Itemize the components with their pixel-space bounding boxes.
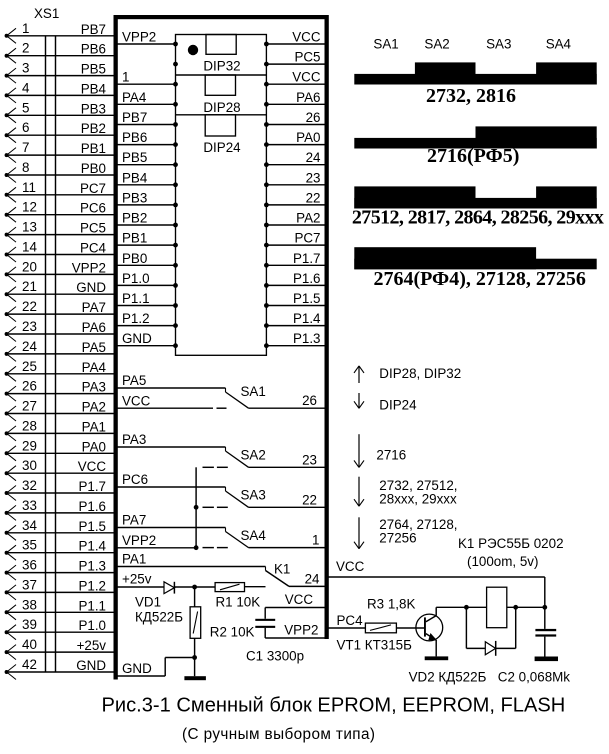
svg-text:2716(РФ5): 2716(РФ5) xyxy=(427,145,519,167)
svg-text:PA2: PA2 xyxy=(82,400,106,415)
svg-text:29: 29 xyxy=(22,438,37,453)
svg-text:PC7: PC7 xyxy=(80,181,106,196)
svg-text:11: 11 xyxy=(22,180,36,195)
svg-text:SA4: SA4 xyxy=(546,36,572,51)
svg-text:34: 34 xyxy=(22,518,37,533)
svg-text:PA5: PA5 xyxy=(122,373,146,388)
svg-text:P1.2: P1.2 xyxy=(78,578,106,593)
svg-text:38: 38 xyxy=(22,597,37,612)
svg-text:GND: GND xyxy=(122,331,152,346)
svg-text:PB2: PB2 xyxy=(81,121,106,136)
svg-text:37: 37 xyxy=(22,577,37,592)
svg-text:PC6: PC6 xyxy=(80,201,106,216)
svg-text:VD2 КД522Б: VD2 КД522Б xyxy=(409,670,487,685)
svg-text:PB5: PB5 xyxy=(122,150,147,165)
svg-text:VPP2: VPP2 xyxy=(72,260,106,275)
svg-text:PA7: PA7 xyxy=(122,513,146,528)
svg-text:P1.3: P1.3 xyxy=(78,559,106,574)
svg-text:PA7: PA7 xyxy=(82,300,106,315)
svg-text:PB6: PB6 xyxy=(81,42,106,57)
svg-text:24: 24 xyxy=(305,572,320,587)
svg-text:VCC: VCC xyxy=(336,559,365,574)
svg-text:(100om, 5v): (100om, 5v) xyxy=(467,554,538,569)
svg-text:PB0: PB0 xyxy=(81,161,106,176)
svg-text:P1.4: P1.4 xyxy=(78,539,106,554)
svg-text:K1 РЭС55Б 0202: K1 РЭС55Б 0202 xyxy=(458,536,564,551)
svg-text:VCC: VCC xyxy=(78,459,107,474)
svg-text:PA3: PA3 xyxy=(122,432,146,447)
svg-text:26: 26 xyxy=(306,110,321,125)
svg-text:K1: K1 xyxy=(274,562,290,577)
svg-text:VCC: VCC xyxy=(292,30,321,45)
svg-text:+25v: +25v xyxy=(77,638,107,653)
svg-text:2764(РФ4), 27128, 27256: 2764(РФ4), 27128, 27256 xyxy=(374,268,586,290)
svg-text:VPP2: VPP2 xyxy=(284,623,318,638)
svg-text:40: 40 xyxy=(22,637,37,652)
svg-text:5: 5 xyxy=(22,100,29,115)
svg-text:GND: GND xyxy=(76,658,106,673)
svg-text:33: 33 xyxy=(22,498,37,513)
svg-text:PC5: PC5 xyxy=(294,50,320,65)
svg-text:23: 23 xyxy=(302,453,317,468)
svg-text:22: 22 xyxy=(302,493,317,508)
svg-text:30: 30 xyxy=(22,458,37,473)
svg-text:21: 21 xyxy=(22,279,37,294)
svg-text:DIP24: DIP24 xyxy=(203,140,241,155)
svg-text:13: 13 xyxy=(22,220,37,235)
svg-text:24: 24 xyxy=(22,339,37,354)
svg-text:P1.6: P1.6 xyxy=(293,271,321,286)
svg-text:VPP2: VPP2 xyxy=(122,533,156,548)
svg-text:PA5: PA5 xyxy=(82,340,106,355)
svg-text:SA3: SA3 xyxy=(241,488,266,503)
svg-text:26: 26 xyxy=(22,379,37,394)
svg-text:PB4: PB4 xyxy=(81,81,107,96)
svg-text:DIP24: DIP24 xyxy=(379,398,417,413)
svg-text:27: 27 xyxy=(22,399,37,414)
svg-text:27512, 2817, 2864, 28256, 29xx: 27512, 2817, 2864, 28256, 29xxx xyxy=(352,206,604,228)
svg-text:12: 12 xyxy=(22,200,37,215)
svg-text:4: 4 xyxy=(22,80,30,95)
svg-text:PC4: PC4 xyxy=(337,613,364,628)
svg-text:PB2: PB2 xyxy=(122,211,147,226)
svg-text:28: 28 xyxy=(22,418,37,433)
svg-text:1: 1 xyxy=(312,533,319,548)
svg-text:PB3: PB3 xyxy=(81,101,106,116)
svg-text:7: 7 xyxy=(22,140,29,155)
svg-text:PB1: PB1 xyxy=(122,231,147,246)
svg-text:PA3: PA3 xyxy=(82,380,106,395)
svg-text:PB7: PB7 xyxy=(122,110,147,125)
svg-text:PB4: PB4 xyxy=(122,170,148,185)
svg-text:PA4: PA4 xyxy=(122,90,147,105)
svg-text:VD1: VD1 xyxy=(135,595,161,610)
svg-text:DIP28: DIP28 xyxy=(203,100,240,115)
svg-text:DIP28, DIP32: DIP28, DIP32 xyxy=(379,366,461,381)
svg-text:PB5: PB5 xyxy=(81,62,106,77)
svg-text:VCC: VCC xyxy=(292,70,321,85)
svg-text:DIP32: DIP32 xyxy=(203,59,240,74)
svg-text:XS1: XS1 xyxy=(34,6,59,21)
svg-text:GND: GND xyxy=(122,661,152,676)
svg-text:28xxx, 29xxx: 28xxx, 29xxx xyxy=(379,492,457,507)
svg-text:P1.0: P1.0 xyxy=(78,618,106,633)
svg-text:SA2: SA2 xyxy=(241,448,266,463)
svg-text:P1.5: P1.5 xyxy=(293,291,321,306)
svg-text:P1.1: P1.1 xyxy=(78,598,106,613)
svg-text:PB3: PB3 xyxy=(122,190,147,205)
svg-text:PA1: PA1 xyxy=(122,552,146,567)
svg-text:VT1 КТ315Б: VT1 КТ315Б xyxy=(337,638,413,653)
svg-text:PC7: PC7 xyxy=(294,231,320,246)
svg-text:P1.4: P1.4 xyxy=(293,311,321,326)
svg-text:R3 1,8K: R3 1,8K xyxy=(367,597,415,612)
svg-text:6: 6 xyxy=(22,120,29,135)
svg-text:SA3: SA3 xyxy=(486,36,511,51)
svg-text:26: 26 xyxy=(302,393,317,408)
svg-text:32: 32 xyxy=(22,478,37,493)
svg-text:25: 25 xyxy=(22,359,37,374)
svg-text:P1.2: P1.2 xyxy=(122,311,150,326)
svg-text:PB0: PB0 xyxy=(122,251,147,266)
svg-text:PA4: PA4 xyxy=(82,360,107,375)
svg-text:23: 23 xyxy=(22,319,37,334)
svg-text:PA6: PA6 xyxy=(296,90,320,105)
svg-text:SA1: SA1 xyxy=(241,384,266,399)
svg-text:36: 36 xyxy=(22,558,37,573)
svg-text:PA6: PA6 xyxy=(82,320,106,335)
svg-text:2: 2 xyxy=(22,41,29,56)
svg-text:КД522Б: КД522Б xyxy=(135,610,183,625)
svg-text:P1.6: P1.6 xyxy=(78,499,106,514)
svg-text:23: 23 xyxy=(306,170,321,185)
svg-text:24: 24 xyxy=(306,150,321,165)
svg-text:20: 20 xyxy=(22,259,37,274)
svg-text:2732, 2816: 2732, 2816 xyxy=(426,85,516,107)
svg-text:39: 39 xyxy=(22,617,37,632)
svg-text:1: 1 xyxy=(22,21,29,36)
svg-text:P1.5: P1.5 xyxy=(78,519,106,534)
svg-text:22: 22 xyxy=(22,299,37,314)
svg-text:C1 3300p: C1 3300p xyxy=(246,649,304,664)
svg-text:PB7: PB7 xyxy=(81,22,106,37)
svg-text:SA1: SA1 xyxy=(373,36,398,51)
svg-text:14: 14 xyxy=(22,240,37,255)
svg-text:C2 0,068Mk: C2 0,068Mk xyxy=(498,670,571,685)
svg-text:R1 10K: R1 10K xyxy=(216,595,261,610)
svg-text:VCC: VCC xyxy=(122,394,151,409)
svg-text:(С ручным выбором типа): (С ручным выбором типа) xyxy=(182,726,375,743)
svg-text:P1.7: P1.7 xyxy=(293,251,321,266)
svg-text:PA1: PA1 xyxy=(82,419,106,434)
svg-text:2716: 2716 xyxy=(376,448,406,463)
svg-text:PB1: PB1 xyxy=(81,141,106,156)
svg-text:PC4: PC4 xyxy=(80,241,107,256)
svg-text:42: 42 xyxy=(22,657,37,672)
svg-text:PB6: PB6 xyxy=(122,130,147,145)
svg-text:VPP2: VPP2 xyxy=(122,30,156,45)
svg-text:PA2: PA2 xyxy=(296,211,320,226)
svg-text:3: 3 xyxy=(22,61,29,76)
svg-text:Рис.3-1 Сменный блок EPROM, EE: Рис.3-1 Сменный блок EPROM, EEPROM, FLAS… xyxy=(102,695,566,717)
svg-text:GND: GND xyxy=(76,280,106,295)
svg-text:27256: 27256 xyxy=(379,531,416,546)
svg-text:8: 8 xyxy=(22,160,29,175)
svg-text:P1.3: P1.3 xyxy=(293,331,321,346)
svg-text:PC6: PC6 xyxy=(122,472,148,487)
svg-text:P1.0: P1.0 xyxy=(122,271,150,286)
svg-text:R2 10K: R2 10K xyxy=(210,625,255,640)
svg-text:VCC: VCC xyxy=(285,592,314,607)
svg-text:SA2: SA2 xyxy=(424,36,449,51)
svg-text:P1.7: P1.7 xyxy=(78,479,106,494)
svg-text:PC5: PC5 xyxy=(80,221,106,236)
svg-text:P1.1: P1.1 xyxy=(122,291,150,306)
svg-text:PA0: PA0 xyxy=(82,439,106,454)
svg-text:SA4: SA4 xyxy=(241,528,267,543)
svg-text:+25v: +25v xyxy=(122,572,152,587)
svg-text:1: 1 xyxy=(122,70,129,85)
svg-text:35: 35 xyxy=(22,538,37,553)
svg-text:22: 22 xyxy=(306,190,321,205)
svg-text:PA0: PA0 xyxy=(296,130,320,145)
